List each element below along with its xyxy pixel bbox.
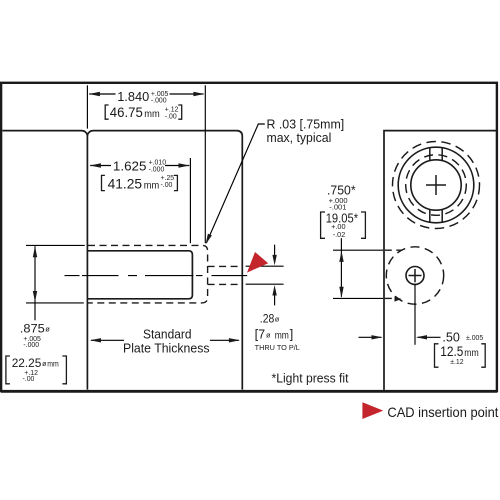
svg-text:-.000: -.000 (149, 166, 165, 173)
svg-text:ø: ø (45, 325, 50, 334)
svg-text:mm: mm (144, 181, 160, 192)
svg-text:22.25: 22.25 (12, 356, 42, 370)
svg-text:-.000: -.000 (23, 342, 39, 349)
svg-text:*Light press fit: *Light press fit (272, 372, 349, 386)
svg-text:-.02: -.02 (333, 230, 346, 239)
svg-text:mm: mm (464, 348, 479, 359)
svg-text:±.005: ±.005 (466, 335, 483, 342)
svg-text:[7: [7 (255, 327, 266, 341)
svg-text:THRU TO P/L: THRU TO P/L (255, 343, 300, 352)
svg-text:1.625: 1.625 (113, 159, 147, 174)
svg-text:CAD insertion point: CAD insertion point (387, 405, 498, 420)
svg-text:.28: .28 (260, 313, 275, 325)
svg-text:1.840: 1.840 (117, 89, 149, 104)
svg-text:Plate Thickness: Plate Thickness (123, 340, 210, 355)
svg-text:+.12: +.12 (165, 106, 179, 113)
svg-text:mm: mm (275, 330, 289, 341)
svg-text:ø: ø (275, 315, 280, 324)
svg-text:mm: mm (144, 109, 160, 120)
svg-text:12.5: 12.5 (440, 344, 463, 359)
svg-text:46.75: 46.75 (110, 105, 143, 120)
svg-text:]: ] (290, 327, 294, 341)
svg-text:±.12: ±.12 (450, 359, 464, 366)
svg-text:-.00: -.00 (165, 114, 177, 121)
svg-text:max, typical: max, typical (267, 130, 332, 145)
svg-text:-.00: -.00 (161, 182, 173, 189)
svg-text:-.00: -.00 (23, 376, 35, 383)
svg-text:41.25: 41.25 (108, 177, 143, 192)
svg-text:ø: ø (266, 330, 271, 339)
svg-text:.50: .50 (442, 330, 460, 344)
svg-text:mm: mm (47, 360, 59, 369)
svg-text:-.000: -.000 (151, 97, 167, 104)
svg-text:.875: .875 (20, 322, 45, 336)
